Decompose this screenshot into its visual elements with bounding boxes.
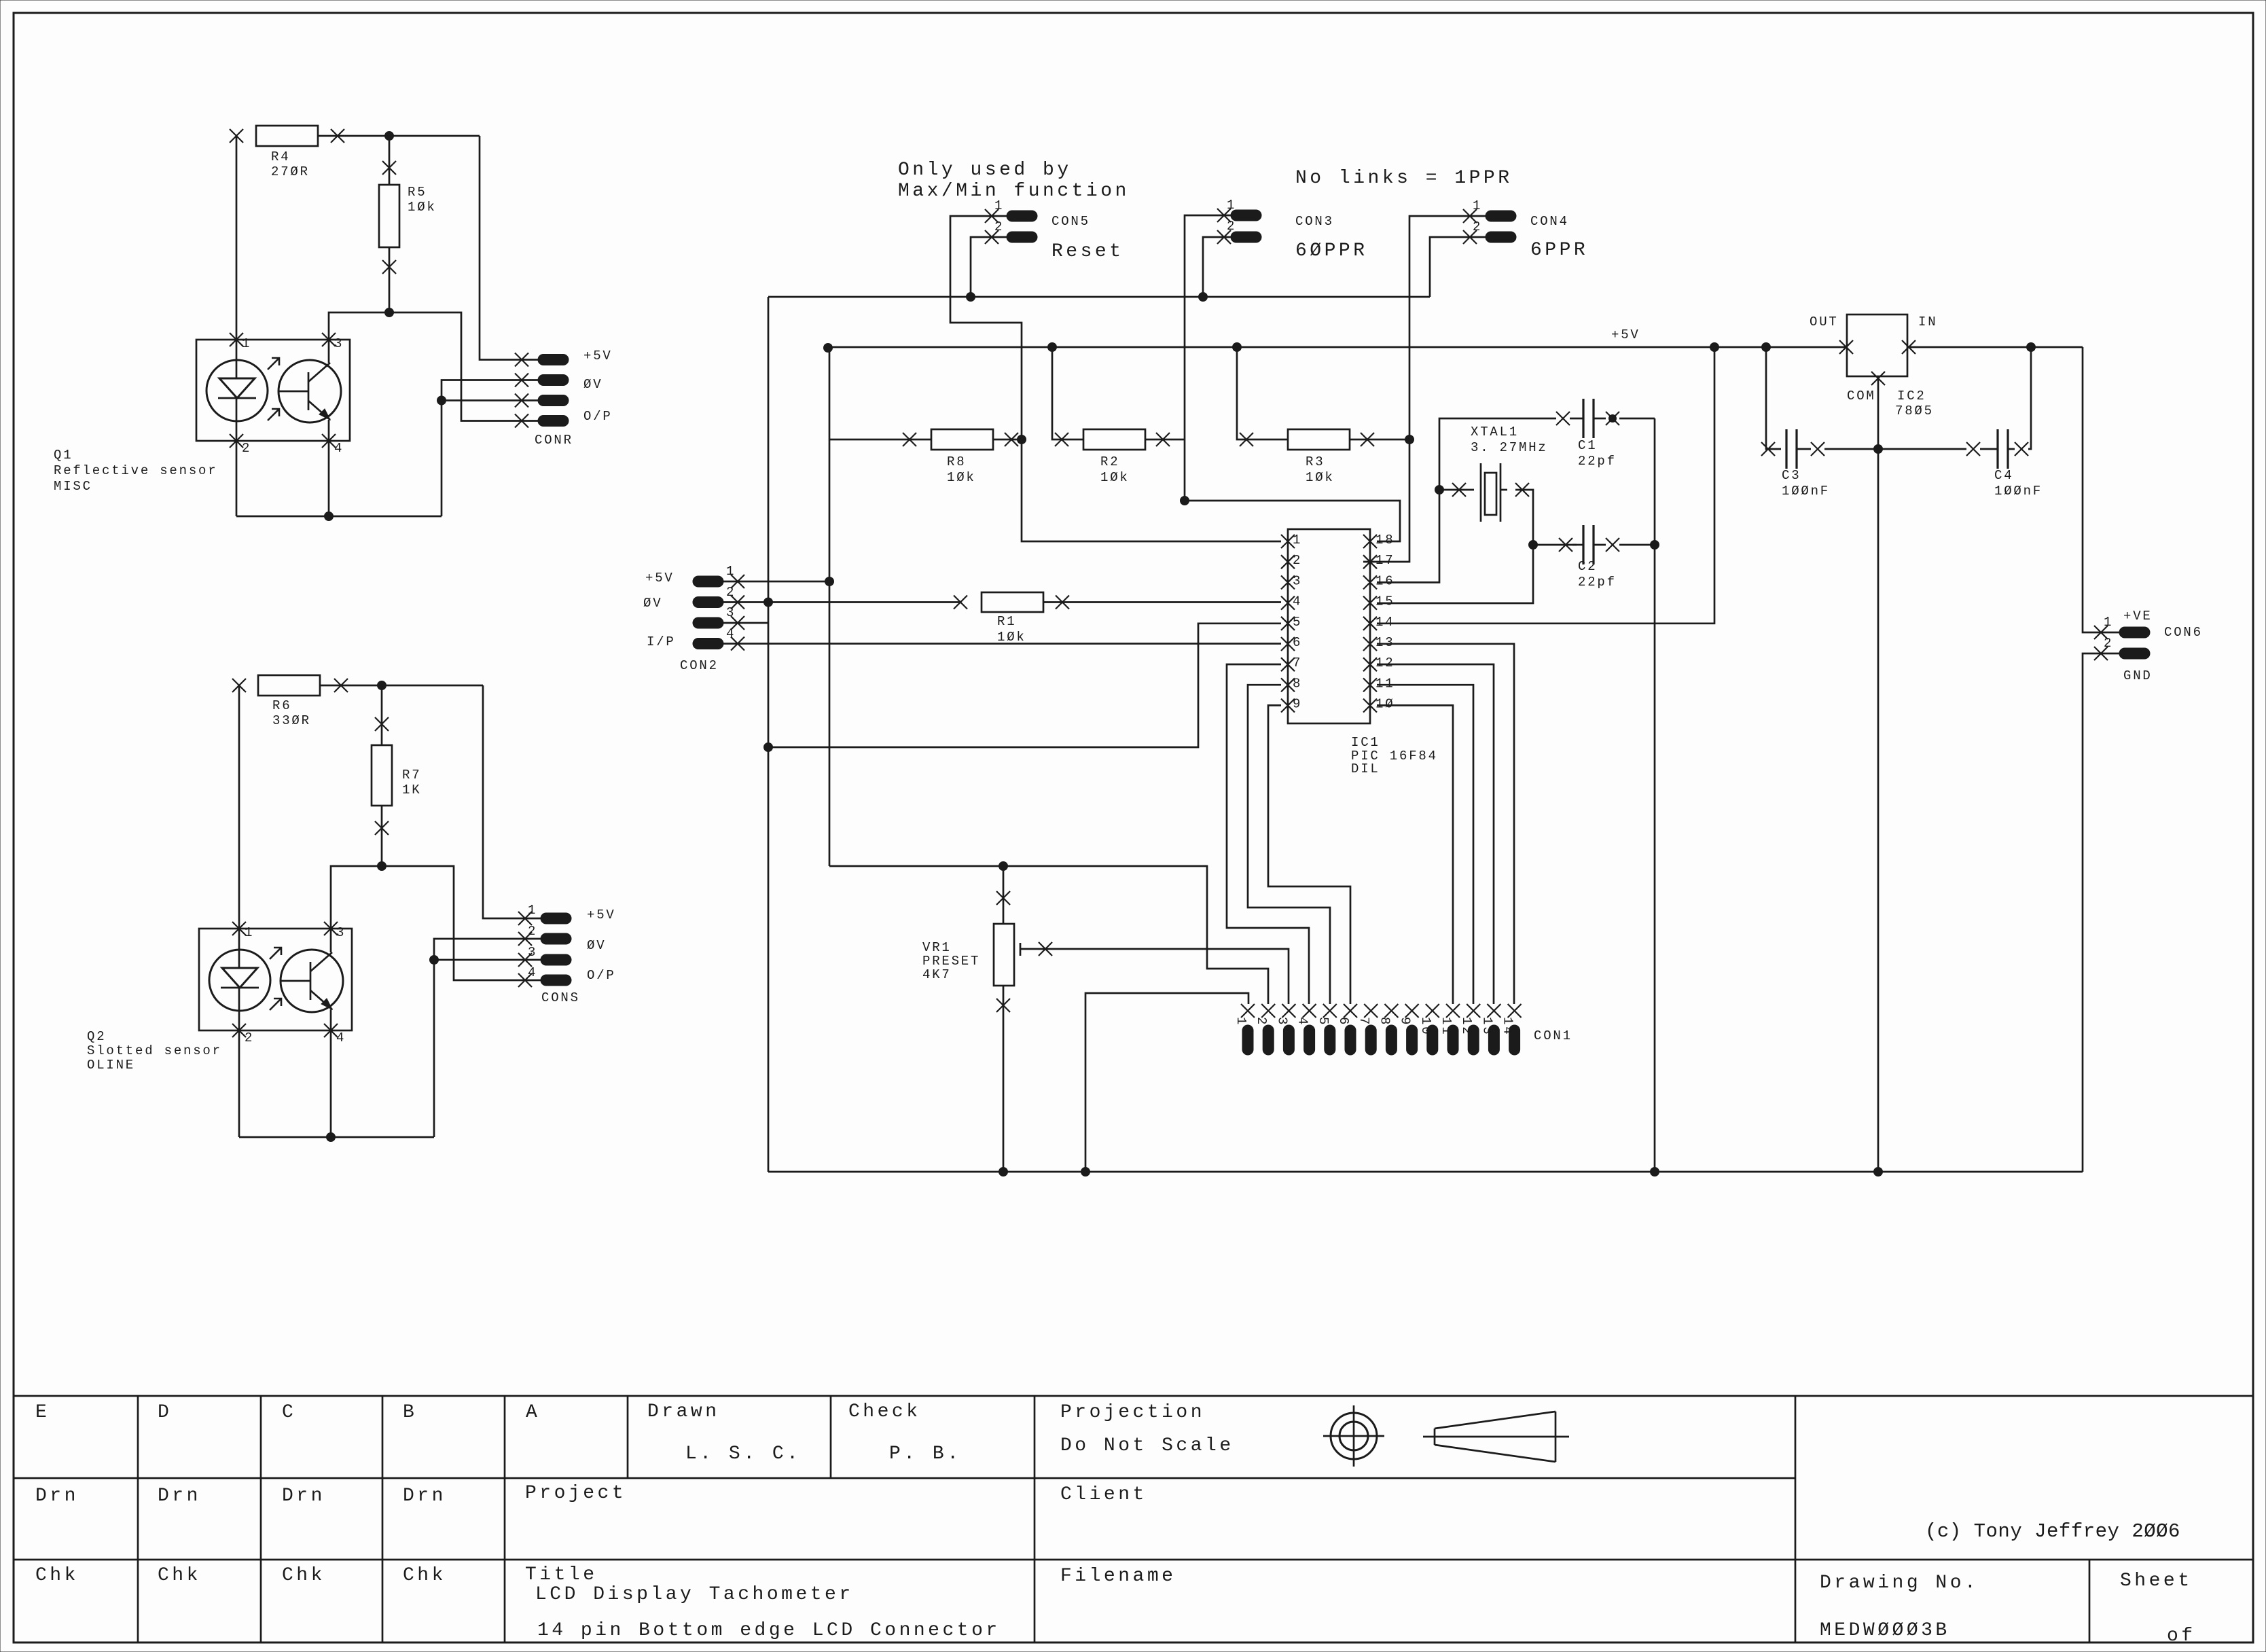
node +5V pin14 junction <box>1710 343 1719 352</box>
title block projection <box>1060 1402 1234 1456</box>
svg-text:R8: R8 <box>947 454 966 469</box>
svg-text:CON2: CON2 <box>680 658 719 673</box>
svg-text:Sheet: Sheet <box>2120 1570 2193 1592</box>
svg-text:4: 4 <box>336 1030 346 1045</box>
svg-text:27ØR: 27ØR <box>271 164 310 179</box>
svg-text:3. 27MHz: 3. 27MHz <box>1471 440 1548 455</box>
svg-text:6PPR: 6PPR <box>1530 240 1588 261</box>
sensor Q2 box <box>199 922 352 1045</box>
svg-text:4K7: 4K7 <box>922 967 952 982</box>
node IC2 COM 0V junction <box>1874 1168 1883 1177</box>
node R3 top junction <box>1233 343 1242 352</box>
svg-text:2: 2 <box>726 585 736 600</box>
svg-text:6: 6 <box>1336 1017 1351 1026</box>
svg-text:C4: C4 <box>1994 468 2013 483</box>
node C4 top junction <box>2027 343 2036 352</box>
svg-text:Drawing No.: Drawing No. <box>1820 1573 1979 1594</box>
svg-text:6: 6 <box>1293 635 1302 650</box>
svg-text:LCD Display Tachometer: LCD Display Tachometer <box>535 1584 854 1605</box>
wire CON3 pin1 to R2 node <box>1185 215 1231 501</box>
svg-text:78Ø5: 78Ø5 <box>1895 403 1934 418</box>
title block grid <box>14 1396 2253 1642</box>
wire CON2 pin1 to IC1 pin3 <box>723 581 829 583</box>
svg-text:R1: R1 <box>997 614 1016 629</box>
svg-text:R6: R6 <box>272 698 291 713</box>
svg-text:4: 4 <box>334 441 344 456</box>
Q2 light arrows <box>270 948 281 1010</box>
svg-text:CONS: CONS <box>541 990 580 1005</box>
node C2 left junction <box>1529 541 1538 550</box>
svg-text:IC1: IC1 <box>1351 735 1380 750</box>
svg-text:+VE: +VE <box>2123 609 2153 624</box>
svg-text:C1: C1 <box>1578 438 1597 453</box>
svg-text:9: 9 <box>1398 1017 1413 1026</box>
svg-text:1: 1 <box>242 336 251 351</box>
connector CON5 <box>985 198 1124 262</box>
svg-text:R3: R3 <box>1306 454 1325 469</box>
svg-text:Check: Check <box>848 1401 921 1422</box>
IC IC2 7805 <box>1810 315 1937 418</box>
svg-text:MISC: MISC <box>54 479 92 494</box>
svg-text:Do Not Scale: Do Not Scale <box>1060 1435 1234 1456</box>
svg-text:2: 2 <box>1293 553 1302 568</box>
wire link 0V rail <box>768 296 1430 298</box>
svg-text:D: D <box>158 1402 172 1423</box>
connector CON3 <box>1217 198 1368 262</box>
node CON2 pin2 junction <box>764 598 773 607</box>
wire CON2 pin4 to IC1 pin6 <box>723 643 1281 645</box>
label +5V rail <box>1611 327 1640 342</box>
svg-text:R7: R7 <box>402 768 421 783</box>
svg-text:4: 4 <box>528 965 537 980</box>
wire 0V bottom rail <box>768 1171 2083 1173</box>
wire +5V to VR1 and CON1 pin2 <box>829 866 1268 1004</box>
node XTAL left junction <box>1435 486 1444 495</box>
resistor R5 <box>379 136 437 312</box>
svg-text:CON6: CON6 <box>2164 625 2203 640</box>
wire GND vertical <box>2083 653 2119 1172</box>
title block drn row <box>35 1483 1147 1507</box>
Q2 phototransistor <box>281 929 343 1030</box>
svg-text:1Øk: 1Øk <box>997 630 1026 645</box>
svg-text:Filename: Filename <box>1060 1566 1176 1587</box>
svg-text:1: 1 <box>528 903 537 918</box>
svg-text:4: 4 <box>726 626 736 641</box>
wire IC1 pin5 to 0V <box>768 624 1281 747</box>
svg-text:1: 1 <box>245 925 254 940</box>
Q2 LED <box>209 929 270 1030</box>
svg-text:3: 3 <box>336 925 346 940</box>
svg-text:CON1: CON1 <box>1534 1028 1572 1043</box>
title block drawing no <box>1820 1573 1979 1641</box>
wire CON4 pin2 to 0V rail <box>1430 237 1486 297</box>
resistor R4 <box>230 126 344 179</box>
connector CON1 <box>1234 1004 1572 1055</box>
svg-text:Drn: Drn <box>35 1486 79 1507</box>
title block copyright <box>1925 1520 2180 1543</box>
wire +5V rail <box>828 346 2083 348</box>
svg-text:IC2: IC2 <box>1897 389 1926 403</box>
svg-text:33ØR: 33ØR <box>272 713 311 728</box>
svg-text:1: 1 <box>1234 1017 1248 1026</box>
svg-text:4: 4 <box>1293 594 1302 609</box>
node VR1 bottom junction <box>999 1168 1008 1177</box>
svg-text:3: 3 <box>1274 1017 1289 1026</box>
svg-text:2: 2 <box>994 219 1004 234</box>
wire CONS pin3 to 0V <box>434 959 541 961</box>
svg-text:Title: Title <box>525 1564 598 1585</box>
svg-text:2: 2 <box>1227 219 1236 234</box>
projection symbol cone <box>1423 1412 1569 1462</box>
wire CONS 0V link <box>434 939 541 1137</box>
Q1 phototransistor <box>278 340 341 441</box>
wire IC2 COM vertical <box>1877 376 1880 1172</box>
wire Q1 LED anode from R4 to pin1 <box>236 136 238 340</box>
svg-text:CON5: CON5 <box>1051 214 1090 229</box>
svg-text:2: 2 <box>1473 219 1482 234</box>
svg-text:Max/Min function: Max/Min function <box>898 181 1130 202</box>
svg-text:Slotted sensor: Slotted sensor <box>87 1043 222 1058</box>
node CON3 pin2 junction <box>1199 293 1208 302</box>
wire CON1 pin1 to 0V <box>1085 993 1248 1172</box>
svg-text:14 pin Bottom edge LCD Connect: 14 pin Bottom edge LCD Connector <box>537 1620 1001 1641</box>
svg-text:A: A <box>526 1402 540 1423</box>
svg-text:MEDWØØØ3B: MEDWØØØ3B <box>1820 1620 1950 1641</box>
wire CON3 pin2 to 0V rail <box>1203 237 1231 297</box>
node CON2 pin1 junction <box>825 577 834 586</box>
svg-text:12: 12 <box>1459 1017 1474 1036</box>
svg-text:ØV: ØV <box>643 596 662 611</box>
svg-text:Projection: Projection <box>1060 1402 1205 1423</box>
svg-text:IN: IN <box>1918 315 1937 329</box>
wire IC1 pin16 to C1/XTAL <box>1377 418 1556 582</box>
svg-text:3: 3 <box>1293 573 1302 588</box>
svg-text:1Øk: 1Øk <box>1306 470 1335 485</box>
svg-text:4: 4 <box>1295 1017 1310 1026</box>
wire Q2 collector/O-P row <box>331 866 541 980</box>
svg-text:Reflective sensor: Reflective sensor <box>54 463 217 478</box>
svg-text:18: 18 <box>1375 533 1395 547</box>
sensor Q1 box <box>196 333 350 456</box>
svg-text:R5: R5 <box>408 185 427 200</box>
svg-text:17: 17 <box>1375 553 1395 568</box>
svg-text:COM: COM <box>1847 389 1876 403</box>
svg-text:13: 13 <box>1479 1017 1494 1036</box>
wire CON2 pin3 stub <box>723 622 768 624</box>
svg-text:Chk: Chk <box>282 1565 325 1586</box>
svg-text:Project: Project <box>525 1483 626 1504</box>
svg-text:Q1: Q1 <box>54 448 73 463</box>
node R3 junction <box>1405 435 1414 444</box>
svg-text:14: 14 <box>1500 1017 1515 1036</box>
svg-text:P. B.: P. B. <box>889 1443 962 1465</box>
svg-text:1Øk: 1Øk <box>408 200 437 215</box>
svg-text:+5V: +5V <box>1611 327 1640 342</box>
wire Q2 LED anode from R6 to pin1 <box>238 685 240 929</box>
wire R6 right to +5V corner <box>320 685 483 687</box>
svg-text:C2: C2 <box>1578 559 1597 574</box>
wire IC1 pin8 to CON1 pin5 <box>1248 685 1330 1004</box>
svg-text:GND: GND <box>2123 668 2153 683</box>
svg-text:5: 5 <box>1293 615 1302 630</box>
wire XTAL right to pin15 <box>1377 490 1533 603</box>
wire CONR 0V link <box>442 380 538 517</box>
wire C1/C2 right vertical <box>1654 418 1656 1172</box>
svg-text:OUT: OUT <box>1810 315 1839 329</box>
svg-text:12: 12 <box>1375 656 1395 670</box>
svg-text:OLINE: OLINE <box>87 1058 135 1073</box>
svg-text:9: 9 <box>1293 697 1302 712</box>
node CON5 pin2 junction <box>967 293 975 302</box>
node R2 top junction <box>1048 343 1057 352</box>
svg-text:8: 8 <box>1377 1017 1392 1026</box>
capacitor C3 <box>1761 347 1878 499</box>
title block filename <box>1060 1566 1176 1587</box>
wire +5V drop to CONR pin1 <box>480 136 538 360</box>
svg-text:+5V: +5V <box>583 348 613 363</box>
label Q1 <box>54 448 217 494</box>
svg-text:B: B <box>403 1402 417 1423</box>
node C3/C4 COM junction <box>1874 445 1883 454</box>
node CONS pin3 junction <box>430 956 439 965</box>
svg-text:11: 11 <box>1439 1017 1454 1036</box>
connector CONR <box>515 348 613 448</box>
wire IC1 pin18 to R2 node <box>1185 501 1400 541</box>
resistor R3 <box>1237 347 1409 485</box>
title block revision letters <box>35 1402 540 1423</box>
node IC1 pin5 0V junction <box>764 743 773 752</box>
node Q1 emitter junction <box>325 512 334 521</box>
IC IC1 PIC16F84 <box>1281 529 1438 776</box>
svg-text:3: 3 <box>334 336 344 351</box>
svg-text:No links = 1PPR: No links = 1PPR <box>1295 168 1513 189</box>
svg-text:3: 3 <box>528 945 537 960</box>
note Max/Min <box>898 160 1130 202</box>
node CON1 pin1 0V junction <box>1081 1168 1090 1177</box>
wire collector/O-P row <box>329 312 538 421</box>
resistor R2 <box>1052 347 1185 485</box>
svg-text:11: 11 <box>1375 676 1395 691</box>
svg-text:16: 16 <box>1375 573 1395 588</box>
connector CON2 <box>643 564 744 673</box>
svg-text:PRESET: PRESET <box>922 954 980 969</box>
title block chk row <box>35 1565 446 1586</box>
preset VR1 <box>922 866 1014 1172</box>
svg-text:1Øk: 1Øk <box>1100 470 1130 485</box>
svg-text:+5V: +5V <box>587 908 616 922</box>
svg-text:Chk: Chk <box>158 1565 201 1586</box>
svg-text:1: 1 <box>1227 198 1236 213</box>
resistor R8 <box>829 429 1022 485</box>
wire IC1 pin13 to CON1 pin14 <box>1377 644 1514 1004</box>
resistor R1 <box>954 592 1281 645</box>
svg-text:1K: 1K <box>402 783 421 797</box>
svg-text:1: 1 <box>994 198 1004 213</box>
svg-text:Drn: Drn <box>403 1486 446 1507</box>
svg-text:1: 1 <box>1293 533 1302 547</box>
svg-text:CONR: CONR <box>535 433 573 448</box>
connector CONS <box>518 903 616 1005</box>
wire Q1 bottom rail <box>236 441 442 516</box>
wire CON2 pin2 R1 row <box>723 601 960 603</box>
node VR1 top junction <box>999 862 1008 871</box>
node R6/R7 junction <box>378 681 386 690</box>
node R5 bottom junction <box>385 308 394 317</box>
wire IC1 pin11 to CON1 pin12 <box>1377 685 1473 1004</box>
wire CON4 pin1 to R3 node <box>1363 216 1486 562</box>
wire C2 left stub <box>1533 544 1577 546</box>
wire CON5 pin2 to 0V rail <box>971 237 1007 297</box>
note No links <box>1295 168 1513 189</box>
svg-text:Client: Client <box>1060 1484 1147 1505</box>
svg-text:10: 10 <box>1418 1017 1433 1036</box>
node Q2 emitter junction <box>327 1133 336 1142</box>
wire +5V vertical <box>829 347 831 866</box>
svg-text:Drawn: Drawn <box>647 1401 720 1422</box>
svg-text:22pf: 22pf <box>1578 454 1617 469</box>
resistor R7 <box>372 685 421 866</box>
svg-text:of: of <box>2167 1626 2196 1647</box>
wire R4 right to +5V corner <box>318 135 480 137</box>
svg-text:CON4: CON4 <box>1530 214 1569 229</box>
crystal XTAL1 <box>1439 425 1548 522</box>
svg-text:DIL: DIL <box>1351 761 1380 776</box>
svg-text:CON3: CON3 <box>1295 214 1334 229</box>
svg-text:R2: R2 <box>1100 454 1119 469</box>
svg-text:Drn: Drn <box>158 1486 201 1507</box>
resistor R6 <box>232 675 348 728</box>
svg-text:2: 2 <box>2104 636 2113 651</box>
svg-text:1ØØnF: 1ØØnF <box>1994 484 2043 499</box>
svg-text:7: 7 <box>1356 1017 1371 1026</box>
title block drawn/check <box>647 1401 962 1465</box>
svg-text:3: 3 <box>726 605 736 620</box>
svg-text:22pf: 22pf <box>1578 575 1617 590</box>
wire IC1 pin7 to CON1 pin4 <box>1227 664 1309 1004</box>
capacitor C2 <box>1559 525 1655 590</box>
svg-text:2: 2 <box>245 1030 254 1045</box>
svg-text:1ØØnF: 1ØØnF <box>1782 484 1830 499</box>
svg-text:C: C <box>282 1402 296 1423</box>
svg-text:5: 5 <box>1316 1017 1331 1026</box>
svg-text:L. S. C.: L. S. C. <box>685 1443 801 1465</box>
wire +VE vertical <box>2083 347 2119 632</box>
node C3 top junction <box>1762 343 1771 352</box>
svg-text:(c) Tony Jeffrey 2ØØ6: (c) Tony Jeffrey 2ØØ6 <box>1925 1520 2180 1543</box>
svg-text:1: 1 <box>1473 198 1482 213</box>
svg-text:Chk: Chk <box>35 1565 79 1586</box>
svg-text:Reset: Reset <box>1051 241 1124 262</box>
svg-text:Chk: Chk <box>403 1565 446 1586</box>
svg-text:8: 8 <box>1293 676 1302 691</box>
svg-text:1Ø: 1Ø <box>1375 697 1395 712</box>
svg-text:15: 15 <box>1375 594 1395 609</box>
wire CON5 pin1 to IC1 pin1 <box>950 216 1281 541</box>
node C2 right junction <box>1651 541 1659 550</box>
node R7 bottom junction <box>378 862 386 871</box>
svg-text:14: 14 <box>1375 615 1395 630</box>
svg-text:O/P: O/P <box>587 968 616 983</box>
wire IC1 pin9 to CON1 pin6 <box>1268 705 1350 1004</box>
Q1 light arrows <box>268 358 279 420</box>
title block title <box>525 1564 1001 1641</box>
Q1 LED <box>206 340 268 441</box>
svg-text:XTAL1: XTAL1 <box>1471 425 1519 439</box>
svg-text:1: 1 <box>726 564 736 579</box>
node CONR pin3 junction <box>437 396 446 405</box>
svg-text:E: E <box>35 1402 50 1423</box>
node +5V rail corner <box>824 344 833 353</box>
node R8 junction <box>1018 435 1026 444</box>
svg-text:2: 2 <box>528 924 537 939</box>
svg-text:R4: R4 <box>271 149 290 164</box>
svg-text:1: 1 <box>2104 615 2113 630</box>
wire IC1 pin10 to CON1 pin11 <box>1377 705 1453 1004</box>
svg-text:Q2: Q2 <box>87 1029 106 1044</box>
wire +5V drop to CONS pin1 <box>483 685 541 918</box>
svg-text:O/P: O/P <box>583 409 613 424</box>
wire Q2 bottom rail <box>239 1030 434 1137</box>
svg-text:ØV: ØV <box>587 938 606 953</box>
title block sheet <box>2120 1570 2196 1647</box>
connector CON6 <box>2094 609 2203 683</box>
node CON3/R2/pin18 junction <box>1181 497 1189 505</box>
svg-text:ØV: ØV <box>583 377 603 392</box>
node C1C2 0V junction <box>1651 1168 1659 1177</box>
wire CONR pin3 to 0V <box>442 399 538 401</box>
wire 0V vertical <box>768 297 770 1172</box>
capacitor C4 <box>1878 347 2043 499</box>
svg-text:+5V: +5V <box>645 571 675 586</box>
svg-text:Drn: Drn <box>282 1486 325 1507</box>
wire +5V to IC1 pin14 <box>1377 347 1714 624</box>
label Q2 <box>87 1029 222 1073</box>
projection symbol circle <box>1323 1405 1384 1467</box>
svg-text:2: 2 <box>242 441 251 456</box>
node R4/R5 junction <box>385 132 394 141</box>
svg-text:1Øk: 1Øk <box>947 470 976 485</box>
svg-text:C3: C3 <box>1782 468 1801 483</box>
svg-text:VR1: VR1 <box>922 940 952 955</box>
svg-text:13: 13 <box>1375 635 1395 650</box>
wire IC1 pin12 to CON1 pin13 <box>1377 664 1494 1004</box>
svg-text:Only used by: Only used by <box>898 160 1072 181</box>
capacitor C1 <box>1556 399 1655 469</box>
svg-text:7: 7 <box>1293 656 1302 670</box>
connector CON4 <box>1463 198 1588 261</box>
wire VR1 wiper to CON1 pin3 <box>1020 942 1289 1004</box>
svg-text:I/P: I/P <box>647 634 676 649</box>
svg-text:6ØPPR: 6ØPPR <box>1295 240 1368 262</box>
svg-text:2: 2 <box>1254 1017 1269 1026</box>
